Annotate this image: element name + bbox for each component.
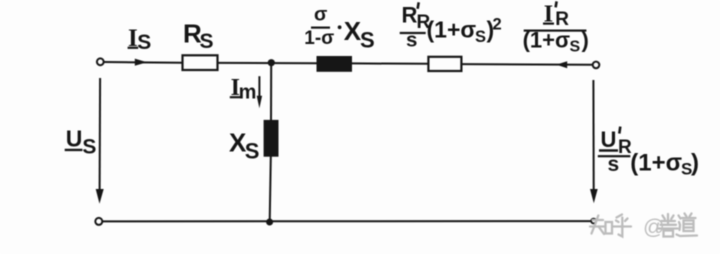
svg-text:S: S xyxy=(82,135,96,158)
svg-text:(1+σ: (1+σ xyxy=(630,150,682,177)
svg-text:(1+σ: (1+σ xyxy=(427,17,477,43)
wire top segment 2 xyxy=(218,62,317,64)
svg-text:U: U xyxy=(66,125,83,151)
wire top segment 4 xyxy=(462,63,593,66)
svg-text:s: s xyxy=(608,153,620,176)
svg-text:@: @ xyxy=(643,215,665,239)
current arrow IR head xyxy=(556,61,567,68)
svg-text:U: U xyxy=(601,127,617,152)
current arrow IS head xyxy=(135,59,147,66)
label sigma/(1-sigma)*XS xyxy=(304,4,374,53)
watermark zhihu xyxy=(590,214,697,237)
label RR'/s (1+sigmaS)^2 xyxy=(400,2,502,51)
svg-text:(1+σ: (1+σ xyxy=(523,28,570,53)
svg-text:S: S xyxy=(360,28,375,53)
current arrow Im head xyxy=(257,96,262,109)
svg-text:): ) xyxy=(691,150,699,177)
svg-text:1-σ: 1-σ xyxy=(304,28,334,49)
svg-text:s: s xyxy=(406,29,417,52)
voltage arrow UR head xyxy=(590,189,598,203)
resistor RR (rotor) xyxy=(428,57,461,71)
inductor sigma leakage (black box) xyxy=(317,56,353,72)
label UR'/s (1+sigmaS) xyxy=(598,127,699,179)
voltage arrow US head xyxy=(96,189,104,204)
label Im xyxy=(230,75,257,104)
svg-text:S: S xyxy=(200,30,214,53)
svg-text:m: m xyxy=(239,81,257,103)
left top terminal xyxy=(97,58,104,65)
svg-text:σ: σ xyxy=(314,4,327,26)
label US xyxy=(65,125,97,158)
label RS xyxy=(183,19,214,53)
right top terminal xyxy=(593,62,600,69)
wire top segment 3 xyxy=(352,62,428,64)
wire middle vertical upper xyxy=(270,63,272,121)
junction node bottom xyxy=(266,219,273,226)
right bottom terminal xyxy=(591,219,596,224)
svg-text:): ) xyxy=(582,28,589,53)
voltage arrow US shaft xyxy=(99,78,102,191)
label IR'/(1+sigmaS) xyxy=(523,1,589,55)
svg-text:S: S xyxy=(137,31,151,54)
wire top segment 1 xyxy=(104,61,182,64)
label IS xyxy=(128,25,152,54)
svg-text:R: R xyxy=(402,3,418,28)
label XS xyxy=(229,127,259,163)
current arrow Im shaft xyxy=(258,76,260,97)
svg-text:S: S xyxy=(475,28,486,46)
svg-text:2: 2 xyxy=(493,16,502,34)
wire middle vertical lower xyxy=(270,156,271,222)
voltage arrow UR shaft xyxy=(592,80,594,191)
inductor XS (black box vertical) xyxy=(264,120,279,157)
resistor RS xyxy=(183,55,218,70)
svg-text:S: S xyxy=(570,39,581,56)
svg-text:S: S xyxy=(245,138,260,163)
junction node top xyxy=(268,59,275,66)
left bottom terminal xyxy=(95,218,102,225)
wire bottom xyxy=(102,220,591,222)
